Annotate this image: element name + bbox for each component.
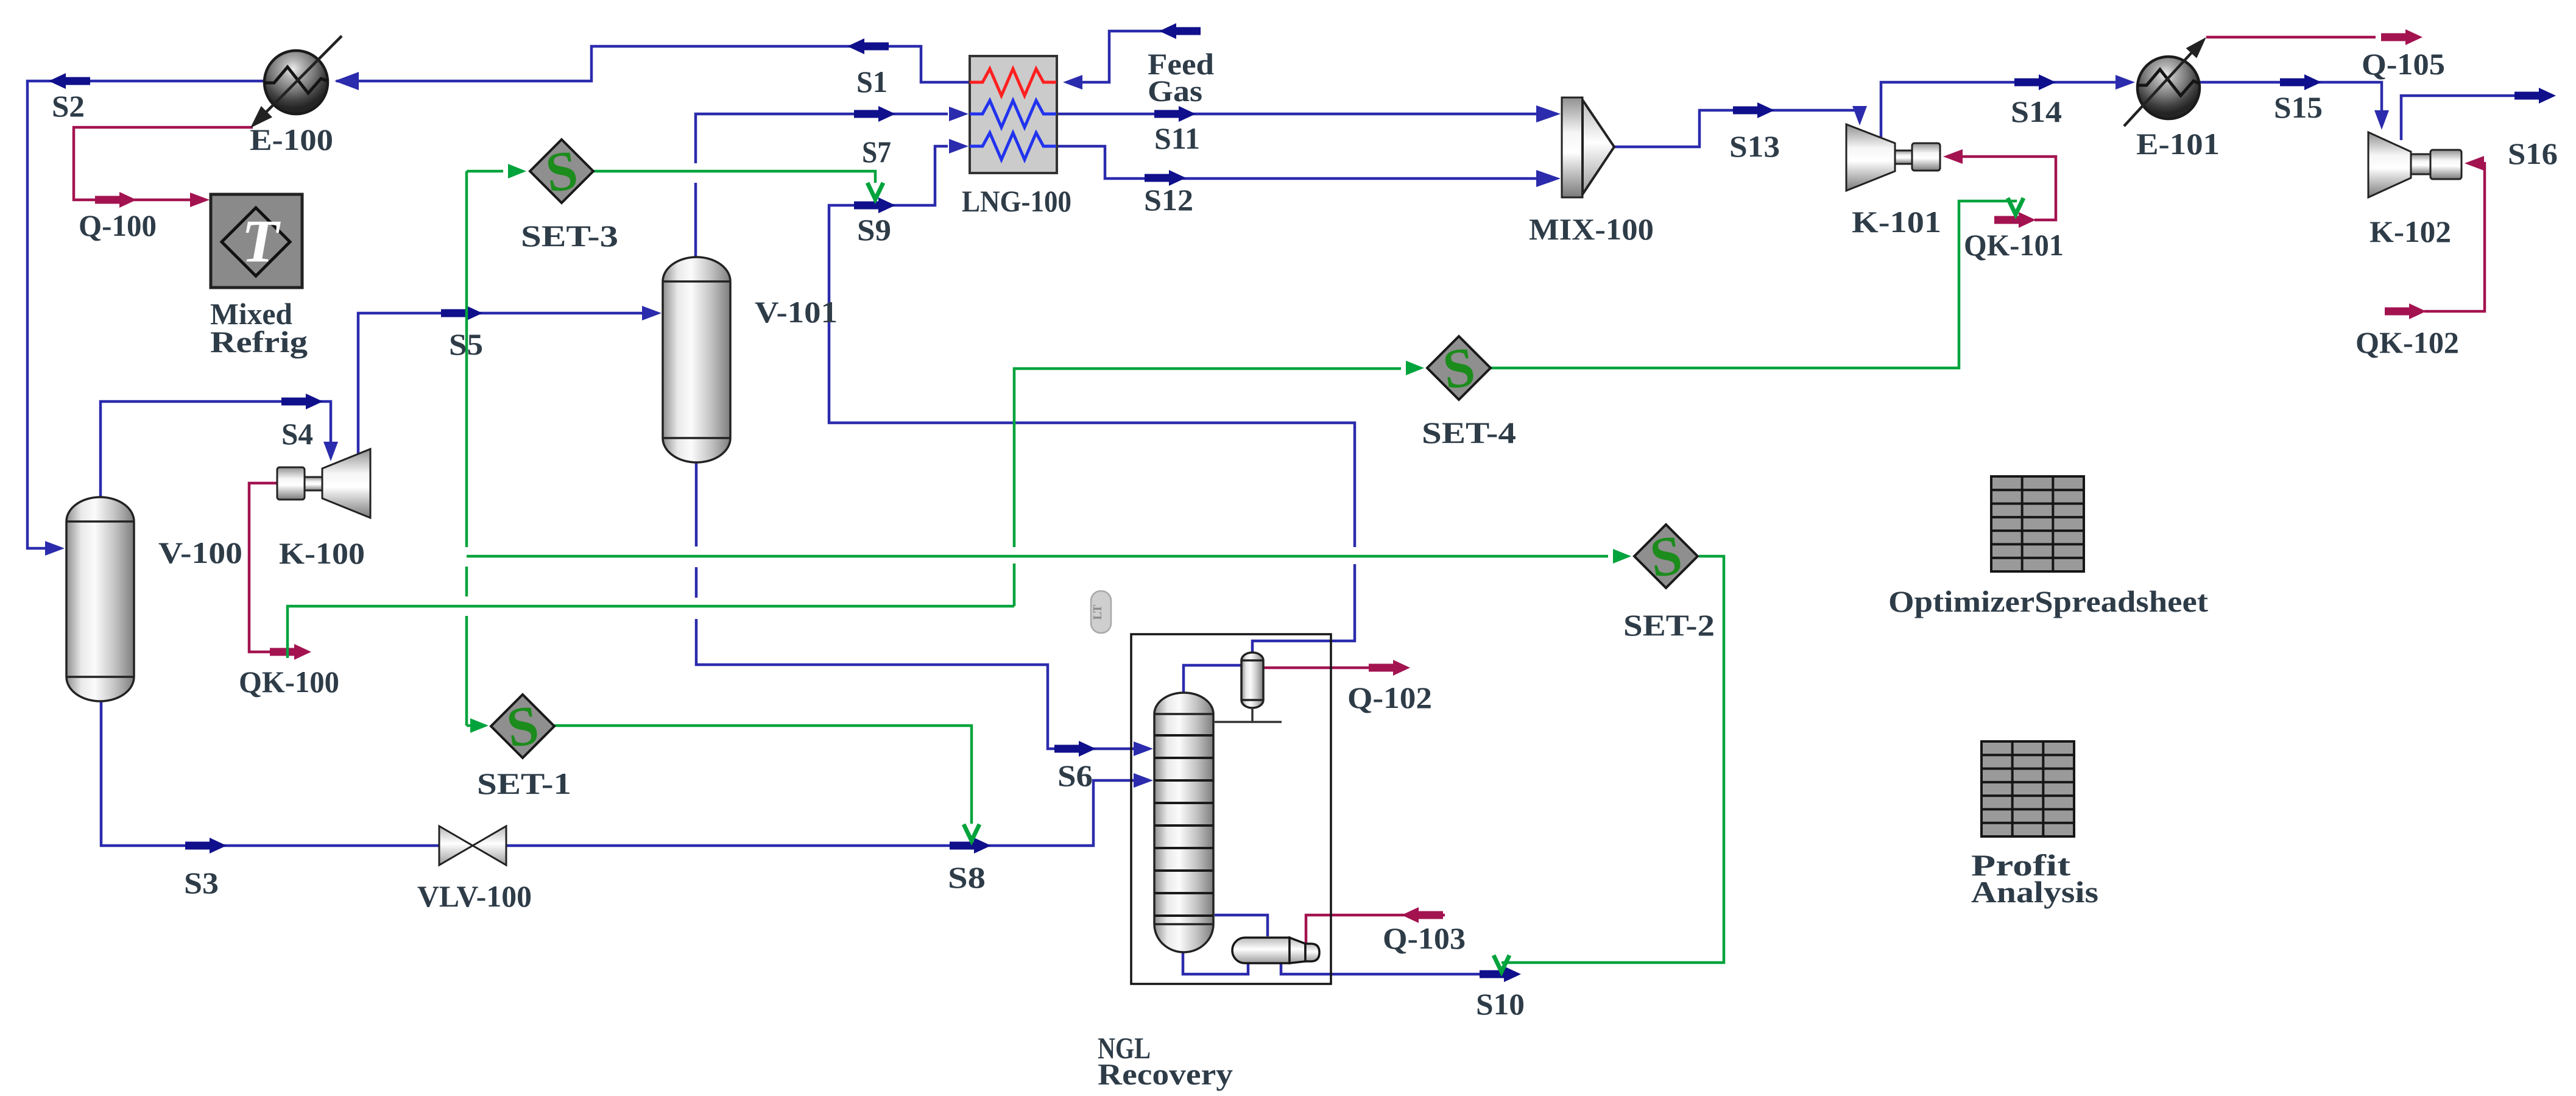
set block SET-2 (1634, 525, 1698, 588)
svg-text:QK-101: QK-101 (1964, 228, 2064, 262)
svg-text:Q-103: Q-103 (1383, 921, 1466, 955)
wire QK-102 K-102 energy inlet (2424, 163, 2485, 311)
wire Q-105 E-101 energy outlet (2206, 36, 2376, 39)
svg-text:SET-2: SET-2 (1623, 608, 1715, 642)
stream arrow S15 (2280, 74, 2321, 90)
junction signal arrow SET-2 onto stream S10 (1494, 955, 1509, 972)
set block SET-1 (491, 695, 554, 758)
junction signal arrow into SET-3 (508, 164, 526, 179)
wire S14 K-101 to E-101 (1881, 82, 2131, 137)
wire S15 E-101 to K-102 (2200, 82, 2382, 125)
stream arrow S11 (1154, 106, 1196, 122)
wire QK-101 K-101 energy inlet (1947, 157, 2056, 220)
wire signal SET-2 to stream S10 (1501, 556, 1724, 963)
condenser NGL Recovery (1241, 652, 1263, 708)
svg-text:S8: S8 (948, 860, 986, 894)
wire QK-100 K-100 energy inlet (249, 483, 280, 652)
svg-text:E-101: E-101 (2136, 127, 2220, 161)
recycle block Mixed Refrig (211, 194, 302, 288)
svg-text:K-101: K-101 (1852, 205, 1941, 239)
svg-text:VLV-100: VLV-100 (417, 879, 532, 913)
stream arrow S13 (1733, 102, 1774, 118)
wire S13 MIX-100 to K-101 (1614, 110, 1860, 147)
wire NGL column side draw to reboiler top (1215, 915, 1268, 936)
svg-text:Analysis: Analysis (1971, 875, 2098, 909)
stream arrow Q-105 (2381, 29, 2422, 45)
stream arrow QK-100 (270, 644, 311, 660)
svg-text:OptimizerSpreadsheet: OptimizerSpreadsheet (1888, 584, 2208, 618)
wire Q-102 NGL condenser duty (1263, 666, 1371, 670)
svg-text:LNG-100: LNG-100 (962, 184, 1071, 218)
svg-text:S11: S11 (1154, 121, 1200, 155)
wire Q-103 NGL reboiler duty (1306, 915, 1445, 944)
wire signal SET-1 to stream S8 (554, 726, 972, 824)
stream arrow S1 (847, 38, 889, 54)
separator V-100 (66, 497, 134, 701)
wire S8 VLV-100 to NGL column lower feed (505, 780, 1149, 846)
svg-text:S4: S4 (281, 417, 313, 451)
svg-text:S15: S15 (2274, 90, 2323, 124)
wire S5 K-100 to V-101 (358, 313, 658, 453)
svg-text:QK-100: QK-100 (239, 665, 339, 699)
wire signal S5 to SET-2 (467, 555, 1608, 558)
wire NGL column bottoms to reboiler (1183, 949, 1248, 974)
reboiler NGL Recovery (1232, 938, 1319, 963)
stream arrow QK-102 (2385, 303, 2426, 319)
stream arrow S8 (950, 838, 991, 854)
svg-text:S5: S5 (449, 327, 483, 361)
wire S11 LNG-100 to MIX-100 (1057, 113, 1538, 116)
stream arrow Q-102 (1369, 660, 1410, 676)
junction signal arrow into SET-4 (1406, 361, 1424, 375)
svg-text:V-101: V-101 (755, 295, 838, 329)
stream arrow S9 (854, 197, 895, 213)
stream arrow S14 (2014, 74, 2056, 90)
heat exchanger E-101 (2124, 32, 2212, 126)
svg-text:S9: S9 (857, 213, 891, 247)
wire S7 V-101 top to LNG-100 (696, 114, 948, 257)
svg-text:QK-102: QK-102 (2355, 325, 2459, 359)
subflowsheet boundary NGL Recovery (1131, 634, 1331, 984)
stream arrow S16 (2514, 88, 2556, 104)
wire Q-100 E-100 to Mixed Refrig (74, 127, 253, 200)
wire signal SET-4 to stream QK-101 (1491, 201, 2016, 368)
svg-text:S10: S10 (1476, 987, 1525, 1021)
stream arrow S10 (1480, 966, 1521, 982)
stream arrow S5 (441, 305, 482, 321)
junction signal arrow into SET-2 (1613, 549, 1631, 564)
spreadsheet icon Profit Analysis (1981, 741, 2074, 836)
wire signal QK-100 to SET-4 (288, 369, 1401, 658)
wire S3 V-100 bottom to VLV-100 (101, 701, 440, 846)
stream arrow QK-101 (1994, 212, 2036, 228)
level transmitter capsule (1091, 591, 1111, 633)
svg-text:K-100: K-100 (279, 536, 365, 570)
stream arrow S4 (281, 394, 323, 409)
svg-text:S1: S1 (856, 65, 887, 99)
wire S4 V-100 top to K-100 (101, 401, 331, 497)
svg-text:S3: S3 (184, 866, 219, 900)
svg-text:K-102: K-102 (2370, 214, 2451, 249)
column tower NGL Recovery T-100 (1154, 693, 1213, 952)
junction signal arrow SET-4 onto stream QK-101 (2008, 198, 2024, 214)
wire Feed Gas inlet to LNG-100 (1081, 31, 1199, 82)
compressor K-101 (1846, 124, 1940, 191)
svg-text:Q-100: Q-100 (79, 208, 157, 242)
stream arrow S7 (854, 106, 895, 122)
svg-text:SET-4: SET-4 (1422, 415, 1516, 450)
wire S10 reboiler to flowsheet exit (1281, 961, 1486, 974)
stream arrow S6 (1054, 741, 1096, 757)
svg-text:S14: S14 (2011, 94, 2062, 129)
set block SET-4 (1427, 336, 1491, 400)
svg-text:T: T (241, 207, 281, 275)
svg-text:S7: S7 (862, 135, 891, 169)
stream arrow Q-103 (1402, 907, 1443, 923)
LNG exchanger LNG-100 (970, 56, 1057, 173)
separator V-101 (663, 257, 730, 462)
set block SET-3 (530, 140, 593, 203)
svg-text:S6: S6 (1057, 758, 1093, 793)
svg-text:S12: S12 (1144, 183, 1193, 217)
wire NGL column overhead to condenser (1184, 665, 1241, 693)
stream arrow S2 (49, 73, 90, 89)
wire S1 LNG-100 to E-100 (336, 46, 970, 82)
wire S6 V-101 bottom to NGL column upper feed (696, 462, 1149, 749)
heat exchanger E-100 (245, 36, 342, 133)
compressor K-100 (277, 449, 370, 518)
valve VLV-100 (439, 826, 506, 865)
wire S12 LNG-100 to MIX-100 (1057, 146, 1538, 179)
condenser drain line (1251, 708, 1254, 721)
spreadsheet icon OptimizerSpreadsheet (1991, 476, 2084, 571)
junction signal arrow SET-3 onto stream S9 (867, 183, 883, 199)
wire S2 E-100 to V-100 (27, 81, 264, 548)
wire S9 NGL condenser overhead to LNG-100 (829, 146, 1355, 652)
compressor K-102 (2368, 132, 2461, 197)
svg-text:Refrig: Refrig (210, 325, 308, 359)
svg-text:V-100: V-100 (158, 536, 242, 570)
svg-text:S13: S13 (1729, 129, 1780, 163)
mixer MIX-100 (1562, 97, 1614, 197)
stream arrow S12 (1145, 170, 1186, 186)
svg-text:Q-102: Q-102 (1347, 681, 1432, 715)
svg-text:MIX-100: MIX-100 (1529, 212, 1654, 246)
wire signal S5 to SET-3 and SET-1 (465, 171, 468, 726)
junction signal arrow into SET-1 (470, 718, 489, 733)
svg-text:Gas: Gas (1148, 74, 1202, 108)
svg-text:S2: S2 (52, 89, 85, 123)
stream arrow Feed Gas (1159, 23, 1201, 39)
wire signal SET-3 to stream S9 (593, 171, 875, 183)
stream arrow Q-100 (95, 192, 136, 208)
svg-text:E-100: E-100 (250, 122, 333, 157)
svg-text:Q-105: Q-105 (2362, 47, 2445, 81)
svg-text:S16: S16 (2508, 136, 2558, 171)
stream arrow S3 (185, 838, 227, 854)
wire S16 K-102 outlet (2401, 96, 2534, 140)
junction signal arrow SET-1 onto stream S8 (964, 824, 979, 841)
svg-text:Recovery: Recovery (1098, 1057, 1233, 1091)
svg-text:SET-1: SET-1 (477, 766, 571, 801)
svg-text:SET-3: SET-3 (521, 219, 618, 253)
svg-text:LT: LT (1091, 604, 1104, 620)
